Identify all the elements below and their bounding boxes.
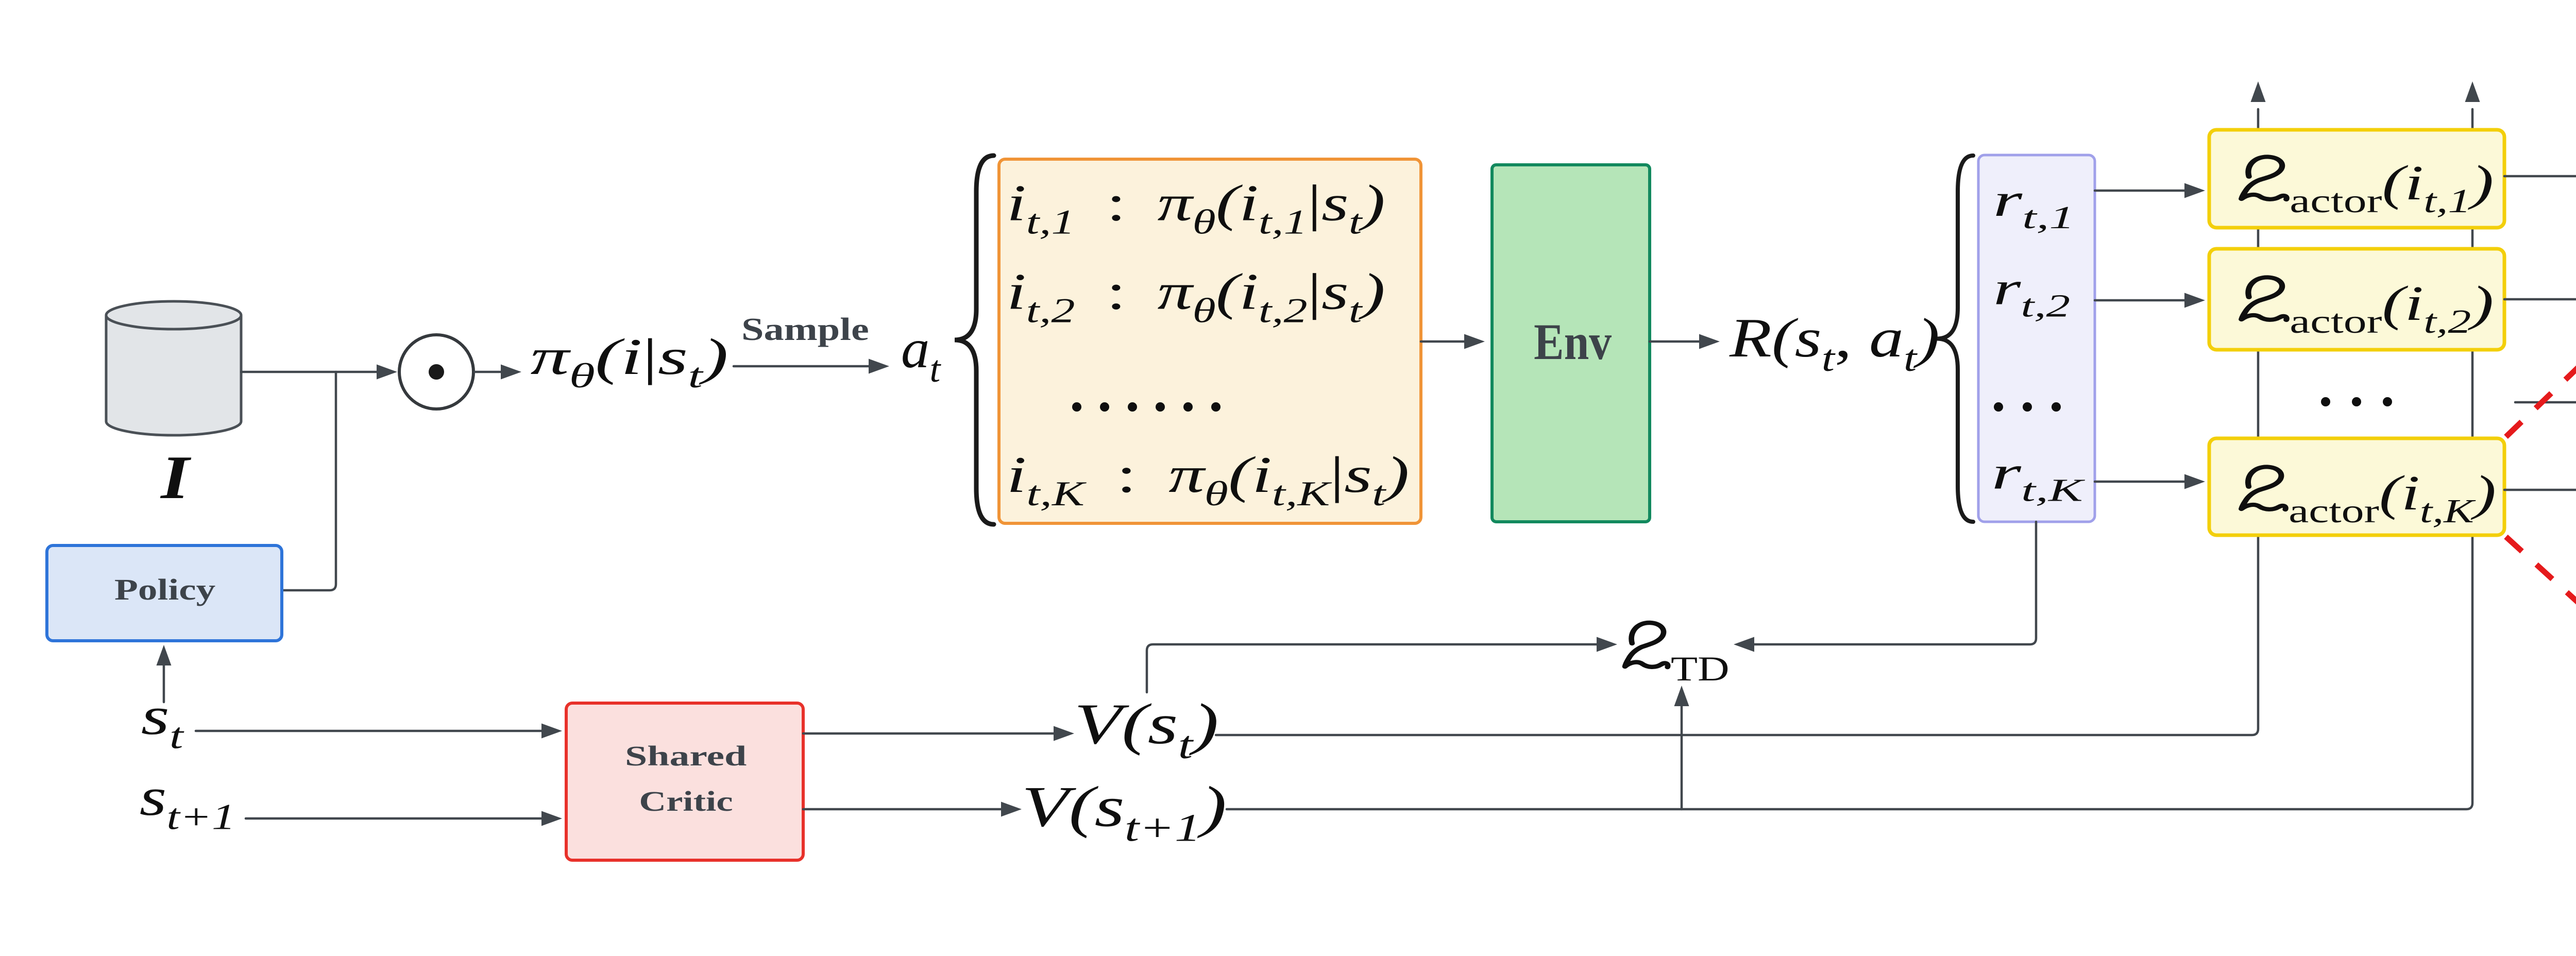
text Policy <box>114 573 215 606</box>
text r1 <box>1993 174 2075 235</box>
wire Env to reward <box>1650 334 1720 349</box>
text Vst_mid <box>1074 692 1219 767</box>
orange action box <box>999 159 1421 523</box>
text Critic <box>639 786 733 817</box>
wire critic to V(s_t) <box>803 726 1074 741</box>
text y2 <box>2242 276 2494 340</box>
wire rewards down to L_TD <box>1734 522 2036 652</box>
wire reward K to actor loss K <box>2095 474 2205 489</box>
svg-text:Sample: Sample <box>741 312 869 348</box>
wire actions to Env <box>1421 334 1485 349</box>
text o_line2 <box>1007 263 1385 330</box>
svg-text:I: I <box>160 443 191 512</box>
purple rewards box <box>1978 155 2095 522</box>
red dashed diagonal upper <box>2506 89 2576 437</box>
rewards brace <box>1937 156 1973 522</box>
wire cylinder to dot-product <box>241 365 397 380</box>
wire s_t+1 to critic <box>246 811 562 826</box>
text rK <box>1992 447 2086 508</box>
svg-text:Env: Env <box>1534 314 1612 371</box>
actor loss box 2 <box>2209 249 2504 350</box>
text LTD <box>1625 623 1730 688</box>
wire dot-product to pi <box>474 365 521 380</box>
wire reward 2 to actor loss 2 <box>2095 293 2205 308</box>
wire policy up to junction <box>282 372 336 590</box>
text r2 <box>1993 262 2070 323</box>
actor loss dots <box>2321 397 2330 406</box>
Policy box <box>47 545 282 641</box>
wire actor loss 1 to sum <box>2504 176 2576 362</box>
red dashed diagonal lower <box>2506 537 2576 866</box>
action dots <box>1072 402 1081 412</box>
wire dots row to sum <box>2515 395 2576 410</box>
text a_t <box>901 317 942 390</box>
Shared Critic box <box>566 703 803 860</box>
text o_line4 <box>1007 446 1410 513</box>
dot-product operator <box>399 335 473 409</box>
action set brace <box>955 156 994 524</box>
wire V(s_t) up to L_TD <box>1147 637 1617 693</box>
reward dots <box>1994 402 2003 412</box>
text Env <box>1534 314 1612 371</box>
text yK <box>2242 466 2496 530</box>
wire V(s_t+1) up to L_TD <box>1674 686 1689 809</box>
svg-text:V(st): V(st) <box>1074 692 1219 767</box>
actor loss box 1 <box>2209 130 2504 228</box>
sample arrow <box>734 359 889 374</box>
svg-text:Shared: Shared <box>625 740 747 772</box>
wire V(s_t+1) long feed up <box>1227 81 2480 809</box>
arrow s_t to Policy <box>157 645 172 702</box>
wire critic to V(s_t+1) <box>803 802 1022 817</box>
svg-text:TD: TD <box>1671 649 1730 688</box>
text Sample <box>741 312 869 348</box>
cylinder dataset buffer <box>106 301 241 435</box>
text Vst1_mid <box>1022 775 1227 850</box>
text pi_mid <box>531 328 728 395</box>
wire s_t to critic <box>196 724 562 739</box>
text I_label <box>160 443 191 512</box>
wire V(s_t) long feed up <box>1216 81 2266 735</box>
text st_left <box>141 686 185 757</box>
text Shared <box>625 740 747 772</box>
svg-text:Critic: Critic <box>639 786 733 817</box>
actor loss box K <box>2209 438 2504 535</box>
wire reward 1 to actor loss 1 <box>2095 183 2205 198</box>
text o_line1 <box>1007 175 1385 242</box>
text y1 <box>2242 155 2494 219</box>
wire actor loss K to sum <box>2504 442 2576 490</box>
wire actor loss 2 to sum <box>2504 298 2576 301</box>
Env box <box>1492 165 1650 522</box>
svg-text:Policy: Policy <box>114 573 215 606</box>
text st1_left <box>140 767 235 837</box>
text R_text <box>1729 308 1940 379</box>
